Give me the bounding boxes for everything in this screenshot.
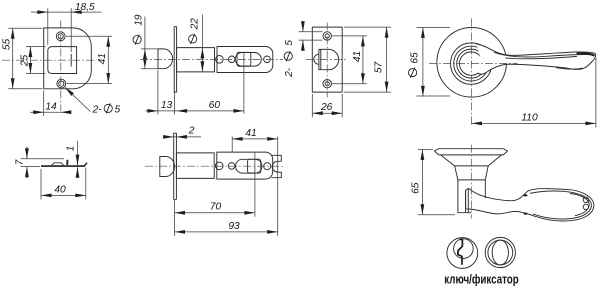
svg-text:2: 2 [188, 126, 195, 137]
lever handle front outline [476, 44, 596, 74]
lever border line 2 [570, 193, 589, 215]
svg-text:70: 70 [210, 202, 222, 213]
key profile [458, 239, 463, 264]
dimension 55 [2, 28, 43, 88]
dimension d19 [133, 14, 147, 68]
latch opening [48, 47, 77, 74]
rose ring 3 [457, 49, 486, 78]
dimension 13 and 60 [146, 70, 245, 115]
dimension 110 [472, 58, 596, 128]
svg-text:25: 25 [20, 55, 31, 68]
lever handle side [466, 188, 594, 221]
lever handle front fill [476, 44, 596, 74]
dimension 41 (faceplate holes) [66, 36, 112, 83]
neck cylinder [458, 180, 471, 213]
svg-text:40: 40 [54, 184, 66, 195]
rose cone step 2 [455, 166, 489, 180]
center line horizontal [306, 59, 348, 61]
rose disc edge-on [434, 149, 507, 155]
latch body [217, 47, 273, 73]
hole 3 [264, 163, 271, 170]
shading dot bottom [524, 213, 528, 215]
fixator thumbturn oval [492, 240, 508, 265]
strike plate outline [312, 27, 342, 92]
dimension 26 [312, 94, 342, 117]
dimension 57 [344, 27, 391, 92]
lever wave line 1 [494, 52, 593, 57]
spindle square [237, 52, 251, 66]
center line vertical [60, 21, 62, 112]
end tab [66, 160, 68, 166]
center line horizontal [140, 58, 283, 60]
screw hole bottom [57, 79, 66, 88]
center line horizontal [145, 165, 284, 167]
latch tube [177, 48, 215, 72]
latch body [217, 152, 273, 179]
dimension 2 [163, 126, 201, 139]
bolt edge extension lines [141, 48, 158, 50]
lever lower inner line [556, 68, 583, 69]
end tab with fork notch [272, 155, 282, 177]
lever shank lines [465, 190, 467, 212]
svg-text:2-: 2- [92, 104, 103, 115]
latch bolt seen through plate [319, 49, 339, 69]
spindle slot (oval) [235, 159, 262, 173]
rose cone step 1 [441, 155, 502, 166]
latch bolt head [160, 157, 175, 177]
dimension d22 [189, 15, 205, 72]
dimension 93 [175, 200, 278, 236]
extension line end pin [277, 137, 279, 236]
svg-text:19: 19 [134, 14, 145, 26]
svg-text:5: 5 [284, 40, 295, 46]
rose outer circle [437, 28, 507, 98]
svg-text:ключ/фиксатор: ключ/фиксатор [444, 272, 519, 287]
svg-text:22: 22 [189, 18, 200, 31]
spindle center extension [254, 153, 256, 217]
lever wave line 2 [506, 56, 578, 58]
extension line hole2 [231, 137, 233, 153]
screw hole top [56, 32, 65, 41]
svg-text:60: 60 [209, 100, 221, 111]
dimension 41 (backset holes) [232, 128, 278, 141]
svg-text:110: 110 [521, 112, 538, 123]
scroll ornament [583, 197, 588, 202]
rose boss [460, 52, 483, 75]
lever rolled edge (dark) [577, 52, 595, 56]
lever inner outline [530, 191, 591, 219]
center line horizontal (rose) [429, 62, 518, 64]
spindle square [248, 159, 261, 173]
rose ring 1 [451, 43, 492, 84]
svg-text:14: 14 [45, 101, 57, 112]
dimension 14 [30, 91, 71, 117]
svg-text:41: 41 [97, 53, 108, 64]
dimension 70 [175, 202, 255, 215]
svg-text:41: 41 [352, 51, 363, 62]
svg-text:13: 13 [161, 100, 173, 111]
hole 3 [264, 56, 271, 63]
dimension 25 [20, 47, 46, 74]
spindle slot (oval) [235, 53, 261, 67]
svg-text:18,5: 18,5 [75, 2, 95, 13]
svg-text:41: 41 [245, 128, 256, 139]
center line vertical [326, 23, 328, 98]
center line vertical (rose) [471, 19, 473, 127]
plate profile (thick) [41, 162, 88, 167]
svg-text:1: 1 [66, 146, 77, 152]
fixator icon circle [485, 237, 515, 267]
svg-text:5: 5 [115, 104, 121, 115]
center line horizontal [2, 59, 96, 61]
latch box bump [52, 163, 64, 165]
svg-text:26: 26 [320, 102, 333, 113]
key bow circle [454, 239, 474, 259]
hole 1 [215, 162, 223, 170]
svg-text:7: 7 [15, 159, 26, 165]
hole 1 [216, 56, 224, 64]
latch bolt head [158, 49, 173, 69]
opening inner step [70, 54, 72, 67]
latch tube [176, 153, 214, 179]
dimension 7 [15, 147, 64, 179]
dimension 1 [66, 141, 80, 178]
faceplate outline [44, 28, 92, 89]
svg-text:55: 55 [2, 39, 13, 51]
latch faceplate bar [174, 133, 177, 199]
dimension 40 [41, 168, 86, 200]
spindle center extension [243, 53, 245, 114]
hole 2 [228, 163, 235, 170]
dimension 65 [411, 149, 455, 214]
dimension d65 [409, 27, 451, 96]
latch faceplate bar [174, 27, 176, 92]
svg-text:65: 65 [410, 52, 421, 64]
svg-text:2-: 2- [284, 67, 295, 78]
label 2-d5 with leader [64, 86, 121, 115]
center line vertical (side rose) [470, 145, 472, 219]
svg-text:57: 57 [373, 62, 384, 74]
svg-text:93: 93 [228, 221, 240, 232]
shading dot top [524, 194, 528, 196]
key icon circle [447, 238, 478, 269]
dimension 41 (strike holes) [332, 36, 368, 84]
svg-text:65: 65 [411, 182, 422, 194]
rose ring 2 [454, 46, 489, 81]
screw hole top [323, 32, 331, 40]
hole 2 [228, 56, 235, 63]
dimension 2-d5 [284, 21, 322, 78]
deadlock plunger [314, 54, 319, 64]
dimension 18,5 [31, 2, 102, 52]
fixator middle circle [488, 240, 513, 265]
screw hole bottom [323, 80, 331, 88]
